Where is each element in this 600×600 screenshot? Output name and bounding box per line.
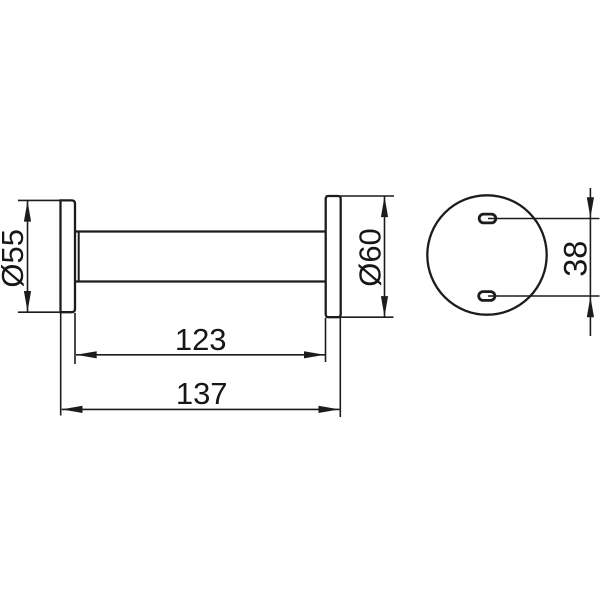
extension line bottom 38 [488,295,600,297]
arrowhead Ø55 down [24,291,31,312]
wall plate circle (front view) [427,195,546,314]
dimension line 137 [62,408,340,410]
dimension line 123 [76,354,325,356]
arrowhead 38 up [587,297,594,318]
extension line top Ø60 [326,195,394,197]
arrowhead 38 down [587,197,594,218]
dimension line 38 [589,188,591,336]
svg-text:137: 137 [176,376,228,411]
extension line left 137 [60,312,62,415]
svg-text:123: 123 [175,322,227,357]
arrowhead 123 left [76,351,97,358]
arrowhead 137 right [319,406,340,413]
roll-holder rod (side view) top line [74,230,326,232]
dimension line Ø55 [27,201,29,312]
extension line right 123 [325,318,327,362]
mounting slot top [479,214,496,223]
arrowhead 123 right [304,351,325,358]
extension line top Ø55 [18,199,61,201]
dimension line Ø60 [384,197,386,317]
roll-holder rod bottom line [74,280,326,282]
extension line top 38 [488,218,600,220]
arrowhead Ø55 up [24,201,31,222]
arrowhead 137 left [62,406,83,413]
extension line bottom Ø55 [18,311,61,313]
extension line right 137 [339,318,341,417]
end disc (side view, Ø60) [326,196,341,317]
svg-text:Ø60: Ø60 [352,228,387,287]
svg-text:Ø55: Ø55 [0,229,30,288]
extension line left 123 [74,313,76,364]
rod end joint line [78,232,80,282]
mounting slot bottom [479,292,495,301]
extension line bottom Ø60 [326,316,394,318]
arrowhead Ø60 up [381,196,388,217]
wall flange disc (side view, Ø55) [61,200,76,312]
arrowhead Ø60 down [381,296,388,317]
svg-text:38: 38 [557,241,593,277]
